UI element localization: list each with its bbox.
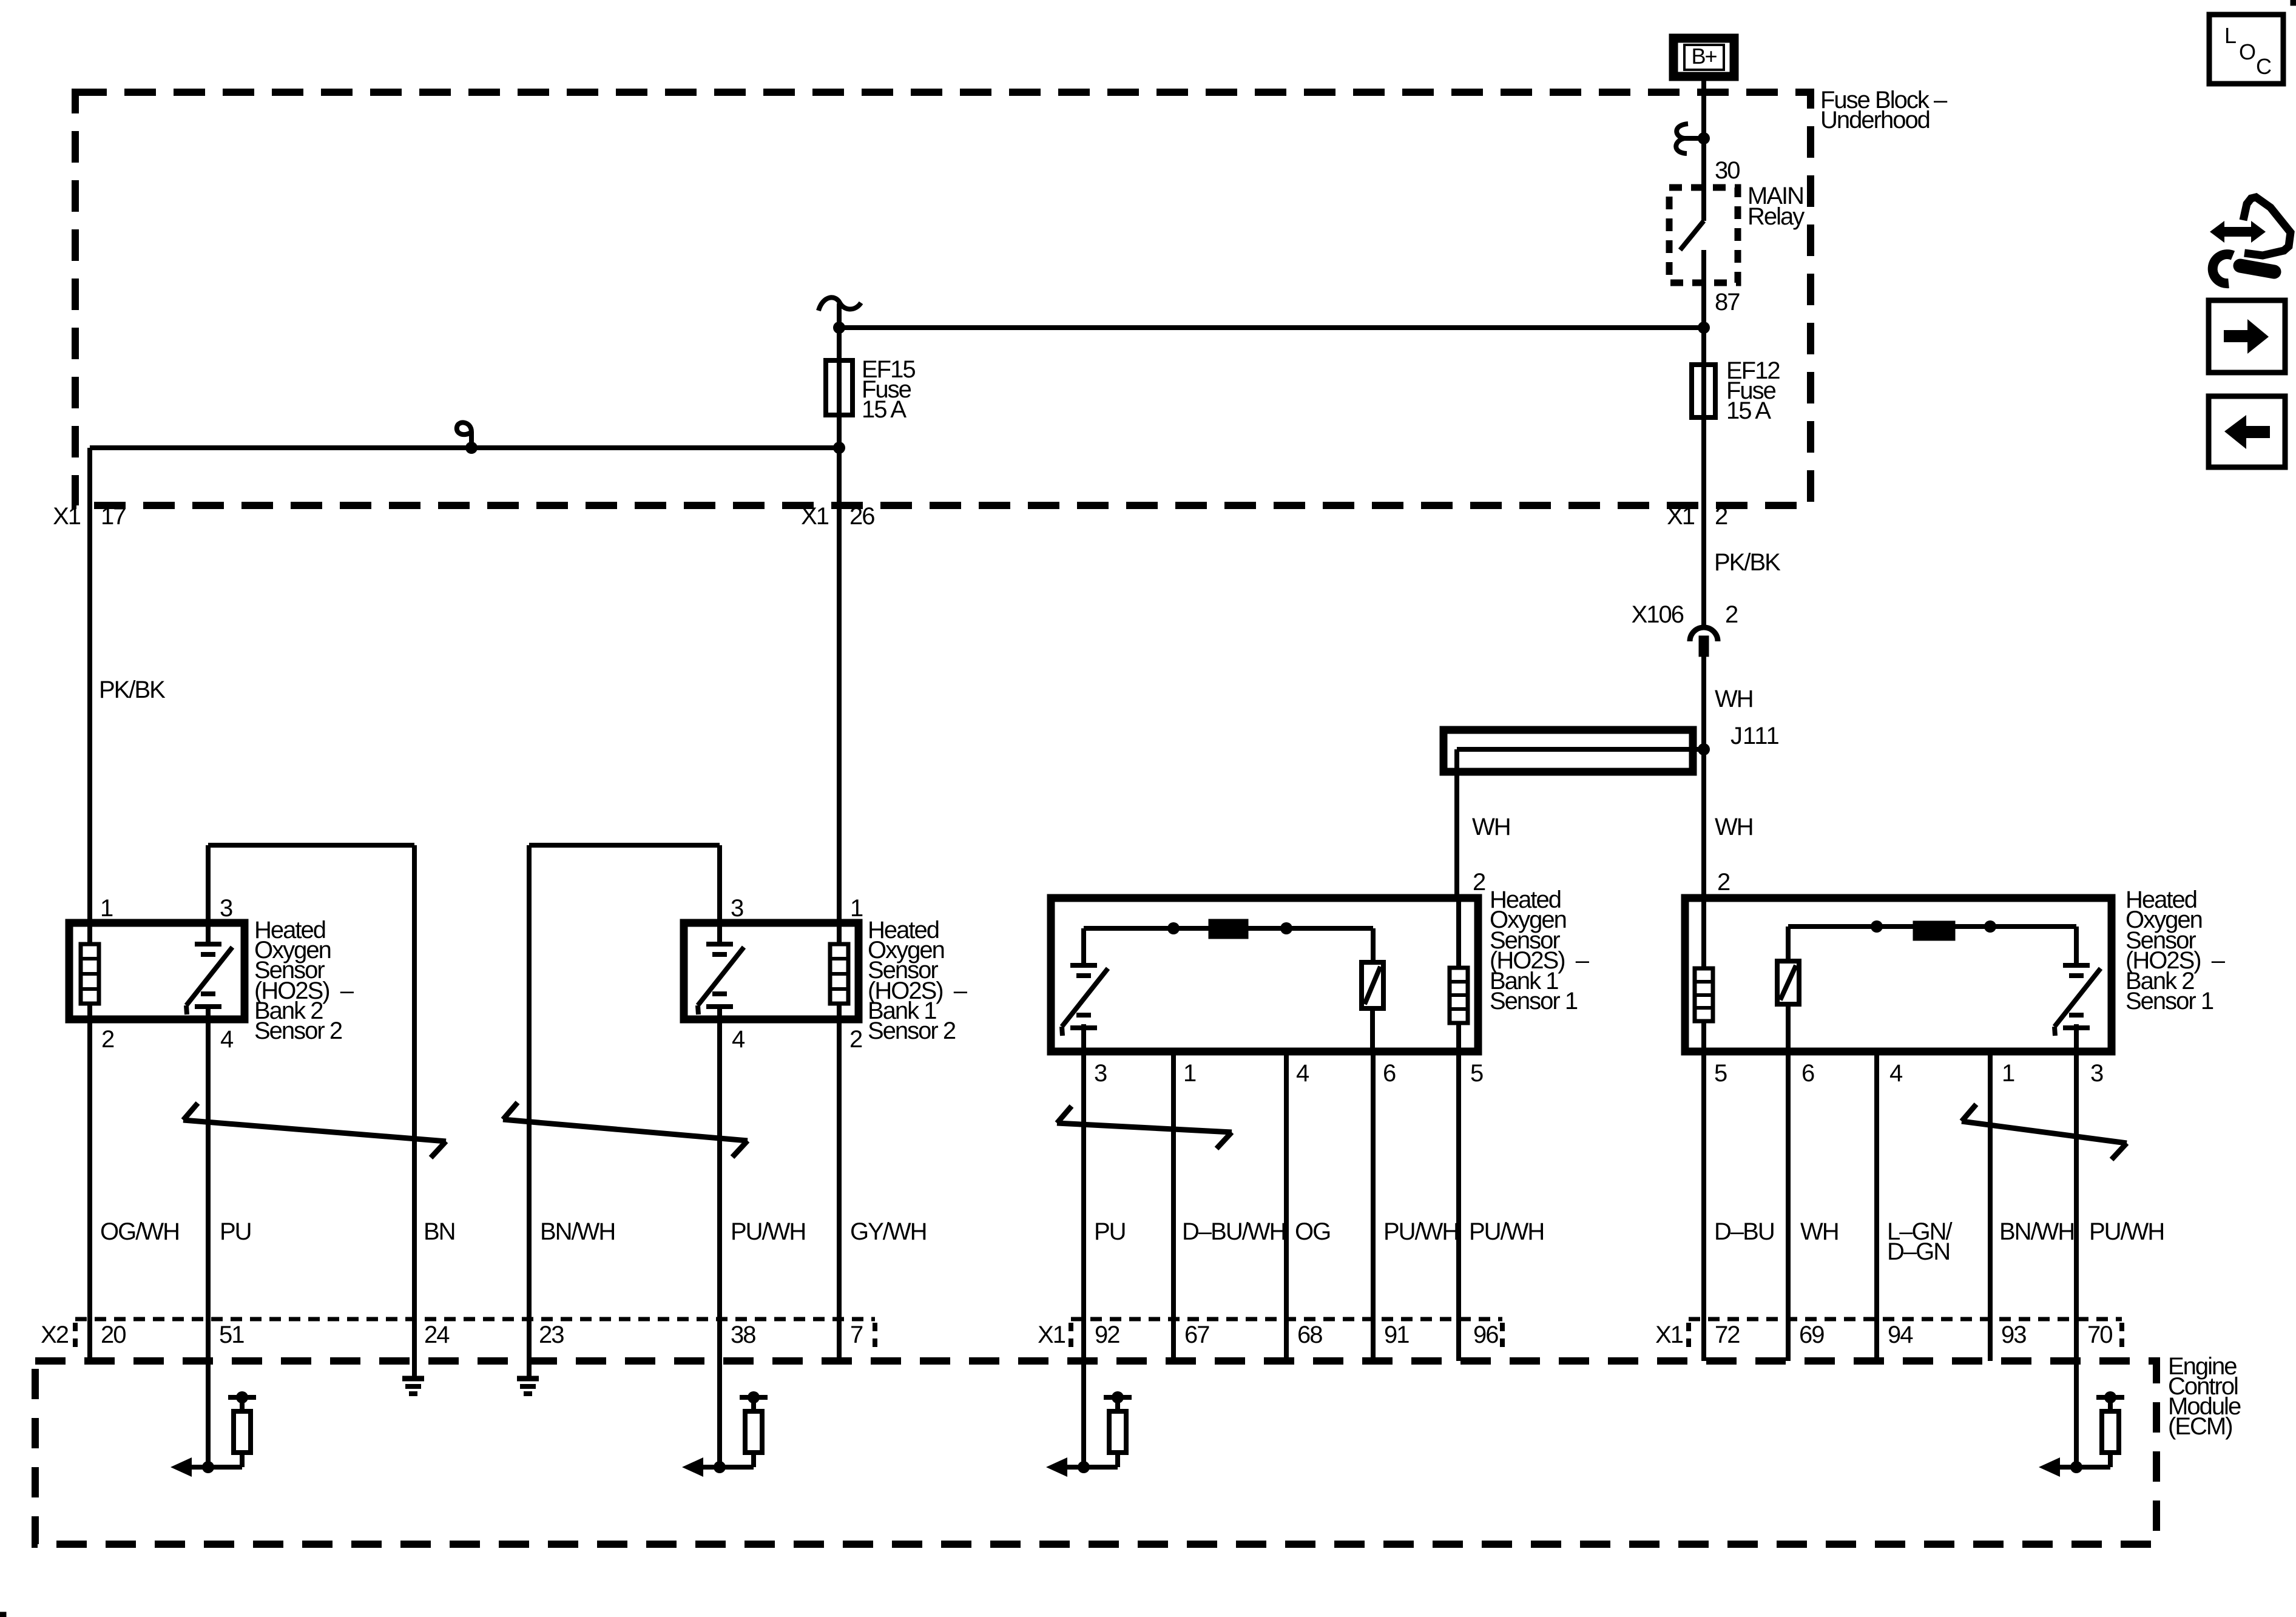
wire EF15 to X1-26 [837, 340, 842, 927]
svg-text:3: 3 [220, 895, 232, 922]
label X2 [41, 1322, 69, 1348]
pin 4 label B1S2 [732, 1026, 745, 1053]
svg-text:68: 68 [1297, 1322, 1322, 1348]
wire left feed down X1-17 [87, 448, 92, 927]
heater element B1S1 [1450, 898, 1468, 1055]
label 2 left branch [1473, 869, 1485, 896]
svg-text:51: 51 [219, 1322, 244, 1348]
svg-text:3: 3 [1094, 1060, 1107, 1087]
svg-text:X1: X1 [1655, 1322, 1683, 1348]
wire B1S1 pin3 to ECM 92 [1081, 1055, 1086, 1467]
label WH above J111 [1715, 686, 1753, 712]
wire B2S2 pin4 to ECM 51 [206, 1019, 211, 1467]
svg-text:6: 6 [1383, 1060, 1396, 1087]
label 87 [1715, 289, 1740, 316]
svg-text:72: 72 [1715, 1322, 1740, 1348]
label PK/BK right [1714, 549, 1781, 576]
splice crimp above EF15 [819, 297, 861, 311]
label WH left branch [1472, 814, 1510, 840]
svg-text:5: 5 [1714, 1060, 1727, 1087]
label PU/WH pin70 [2089, 1218, 2164, 1245]
svg-text:93: 93 [2001, 1322, 2026, 1348]
ECM pin numbers [101, 1322, 2112, 1348]
label PU/WH pin38 [731, 1218, 805, 1245]
battery feed B+ box [1673, 38, 1734, 76]
pin 1 label B2S2 [100, 895, 113, 922]
wire B2S1 pin4 to ECM 94 [1874, 1055, 1879, 1361]
pullup network pin 70 [2039, 1391, 2124, 1477]
svg-text:24: 24 [424, 1322, 450, 1348]
svg-text:20: 20 [101, 1322, 126, 1348]
label PU/WH pin91 [1383, 1218, 1458, 1245]
prev page arrow box [2209, 396, 2285, 467]
svg-text:69: 69 [1799, 1322, 1824, 1348]
HO2S Bank 1 Sensor 2 box [684, 923, 859, 1019]
ground at ECM 24 [402, 1379, 424, 1394]
relay contact pin 30 side [1701, 187, 1706, 221]
svg-text:26: 26 [849, 503, 874, 530]
page corner mark bottom left [0, 1612, 6, 1617]
svg-text:PU/WH: PU/WH [1469, 1218, 1544, 1245]
pin 3 label B1S2 [731, 895, 743, 922]
label PU pin51 [220, 1218, 251, 1245]
pin 5 label B2S1 [1714, 1060, 1727, 1087]
svg-text:GY/WH: GY/WH [850, 1218, 927, 1245]
label EF12 Fuse 15 A [1726, 357, 1780, 424]
wire X106 to J111 [1701, 657, 1706, 894]
heater element B1S2 [830, 923, 848, 1024]
connector X106 [1690, 627, 1718, 657]
label OG [1295, 1218, 1330, 1245]
svg-text:94: 94 [1888, 1322, 1913, 1348]
svg-text:23: 23 [539, 1322, 564, 1348]
svg-text:BN/WH: BN/WH [1999, 1218, 2074, 1245]
svg-text:1: 1 [850, 895, 863, 922]
pin 6 label B2S1 [1801, 1060, 1814, 1087]
svg-text:BN: BN [424, 1218, 455, 1245]
svg-text:3: 3 [731, 895, 743, 922]
svg-text:OG/WH: OG/WH [100, 1218, 179, 1245]
wire splice to relay pin 30 [1701, 138, 1706, 187]
svg-text:Underhood: Underhood [1820, 107, 1930, 133]
label X1 right [1655, 1322, 1683, 1348]
pin X1 26 [801, 503, 874, 530]
zener B1S1 [1362, 962, 1383, 1055]
svg-text:Sensor 1: Sensor 1 [2125, 988, 2213, 1014]
svg-text:67: 67 [1184, 1322, 1209, 1348]
pin 3 label B2S1 [2090, 1060, 2103, 1087]
wire B1S2 pin4 to ECM 38 [717, 1019, 722, 1467]
pin 6 label B1S1 [1383, 1060, 1396, 1087]
svg-text:Sensor 1: Sensor 1 [1490, 988, 1578, 1014]
label Fuse Block - Underhood [1820, 87, 1948, 133]
wire HO2S B2S2 pin3 loop [208, 845, 414, 1377]
label 2 right branch [1717, 869, 1730, 896]
page corner mark top right [2291, 0, 2296, 5]
label Engine Control Module ECM [2168, 1353, 2241, 1440]
svg-text:2: 2 [1717, 869, 1730, 896]
splice pack J111 box [1443, 730, 1693, 772]
svg-text:WH: WH [1472, 814, 1510, 840]
pin X1 2 [1667, 503, 1727, 530]
label HO2S Bank 2 Sensor 1 [2125, 886, 2226, 1014]
junction pin1 B1S1 [1167, 922, 1180, 934]
wire B2S1 pin1 to ECM 93 [1988, 1055, 1993, 1361]
label EF15 Fuse 15 A [862, 356, 915, 423]
svg-text:6: 6 [1801, 1060, 1814, 1087]
svg-text:X1: X1 [53, 503, 81, 530]
junction node at EF12 top [1698, 322, 1710, 334]
svg-text:91: 91 [1384, 1322, 1409, 1348]
svg-text:38: 38 [731, 1322, 755, 1348]
wire J111 left branch [1454, 749, 1459, 898]
connector row dotted X1 right [1689, 1317, 2122, 1322]
wire B1S1 pin5 to ECM 96 [1456, 1055, 1461, 1361]
svg-text:30: 30 [1715, 157, 1740, 184]
wire B+ to splice [1701, 81, 1706, 141]
svg-text:70: 70 [2087, 1322, 2112, 1348]
svg-text:WH: WH [1715, 814, 1753, 840]
svg-text:2: 2 [1715, 503, 1727, 530]
svg-text:2: 2 [849, 1026, 862, 1053]
label OG/WH [100, 1218, 179, 1245]
label BN/WH pin93 [1999, 1218, 2074, 1245]
label HO2S Bank 1 Sensor 1 [1490, 886, 1590, 1014]
svg-text:PU/WH: PU/WH [2089, 1218, 2164, 1245]
label HO2S Bank 1 Sensor 2 [868, 917, 968, 1044]
junction node in J111 [1698, 743, 1710, 755]
wire B2S1 pin5 to ECM 72 [1701, 1055, 1706, 1361]
svg-text:PU/WH: PU/WH [1383, 1218, 1458, 1245]
pin 3 label B1S1 [1094, 1060, 1107, 1087]
svg-text:PK/BK: PK/BK [1714, 549, 1781, 576]
pin 4 label B2S1 [1889, 1060, 1903, 1087]
svg-text:J111: J111 [1730, 723, 1780, 749]
pin 4 label B2S2 [220, 1026, 234, 1053]
heater element B2S2 [81, 923, 99, 1024]
label WH right branch [1715, 814, 1753, 840]
HO2S Bank 1 Sensor 1 box [1051, 898, 1478, 1052]
fuse EF15 [826, 360, 853, 415]
junction pin4 B2S1 [1871, 920, 1883, 933]
svg-text:92: 92 [1095, 1322, 1119, 1348]
label HO2S Bank 2 Sensor 2 [254, 917, 354, 1044]
pin 1 label B2S1 [2002, 1060, 2014, 1087]
twisted pair B1S1 [1057, 1106, 1232, 1149]
fuse EF12 [1692, 365, 1715, 417]
svg-text:7: 7 [850, 1322, 863, 1348]
wire J111 internal [1457, 747, 1704, 752]
svg-text:17: 17 [101, 503, 126, 530]
pin 2 label B2S2 [101, 1026, 114, 1053]
wire EF12 down to X106 [1701, 331, 1706, 627]
internal bus B1S1 [1084, 928, 1373, 965]
label PU pin92 [1094, 1218, 1126, 1245]
svg-text:X1: X1 [801, 503, 829, 530]
connector row dotted X1 mid [1071, 1317, 1502, 1322]
splice crimp on left feed [457, 422, 478, 454]
splice crimp under B+ [1676, 124, 1710, 154]
label X106 2 [1632, 601, 1738, 628]
label L-GN/D-GN [1887, 1218, 1953, 1265]
svg-text:B+: B+ [1691, 44, 1717, 69]
svg-text:D–BU/WH: D–BU/WH [1182, 1218, 1285, 1245]
wire WH into B1S1 pin2 [0, 0, 1, 1]
label 30 [1715, 157, 1740, 184]
twisted pair B2S2 [183, 1103, 446, 1158]
internal bus B2S1 [1788, 927, 2076, 965]
svg-text:Sensor 2: Sensor 2 [868, 1018, 956, 1044]
svg-text:87: 87 [1715, 289, 1740, 316]
svg-text:1: 1 [1183, 1060, 1196, 1087]
wire B2S1 pin6 to ECM 69 [1786, 1055, 1791, 1361]
label J111 [1730, 723, 1780, 749]
junction node at EF15 top [833, 322, 845, 334]
label MAIN Relay [1747, 183, 1805, 230]
label PK/BK left [99, 677, 166, 703]
twisted pair B2S1 [1962, 1104, 2127, 1160]
LOC nav box [2209, 15, 2283, 84]
label D-BU [1714, 1218, 1774, 1245]
pin 3 label B2S2 [220, 895, 232, 922]
label D-BU/WH [1182, 1218, 1285, 1245]
svg-text:2: 2 [1725, 601, 1738, 628]
fuse block - underhood dashed border [75, 92, 1811, 505]
pullup network pin 51 [171, 1391, 256, 1477]
junction node left feed [833, 442, 845, 454]
label X1 mid [1038, 1322, 1065, 1348]
svg-text:(ECM): (ECM) [2168, 1413, 2232, 1440]
svg-text:PK/BK: PK/BK [99, 677, 166, 703]
wire crimp to fuse EF15 [837, 303, 842, 364]
svg-text:D–BU: D–BU [1714, 1218, 1774, 1245]
sensing cell B1S2 [698, 923, 744, 1024]
sensing cell B1S1 [1062, 965, 1108, 1055]
pullup network pin 38 [682, 1391, 768, 1477]
pin 1 label B1S1 [1183, 1060, 1196, 1087]
svg-text:Relay: Relay [1747, 203, 1805, 230]
svg-text:BN/WH: BN/WH [540, 1218, 615, 1245]
svg-text:PU: PU [220, 1218, 251, 1245]
HO2S Bank 2 Sensor 2 box [69, 923, 245, 1019]
svg-text:1: 1 [100, 895, 113, 922]
svg-text:5: 5 [1470, 1060, 1483, 1087]
HO2S Bank 2 Sensor 1 box [1685, 898, 2112, 1052]
svg-text:3: 3 [2090, 1060, 2103, 1087]
thermistor block B1S1 [1209, 919, 1248, 939]
pin 1 label B1S2 [850, 895, 863, 922]
pullup network pin 92 [1046, 1391, 1132, 1477]
next page arrow box [2209, 300, 2285, 373]
label PU/WH pin96 [1469, 1218, 1544, 1245]
wire B2S2 pin2 to ECM 20 [87, 1019, 92, 1361]
sensing cell B2S2 [186, 923, 232, 1024]
wire B1S1 pin6 to ECM 91 [1371, 1055, 1376, 1361]
svg-text:D–GN: D–GN [1887, 1238, 1950, 1265]
vehicle service icon [2210, 197, 2291, 283]
svg-text:X1: X1 [1038, 1322, 1065, 1348]
svg-text:2: 2 [1473, 869, 1485, 896]
pin 4 label B1S1 [1296, 1060, 1309, 1087]
relay switch blade [1680, 221, 1704, 250]
pin 2 label B1S2 [849, 1026, 862, 1053]
svg-text:C: C [2256, 54, 2271, 79]
ground at ECM 23 [517, 1379, 539, 1394]
svg-text:WH: WH [1800, 1218, 1838, 1245]
wire B1S1 pin1 to ECM 67 [1171, 1055, 1176, 1361]
svg-text:15 A: 15 A [1726, 397, 1771, 424]
svg-text:1: 1 [2002, 1060, 2014, 1087]
svg-text:2: 2 [101, 1026, 114, 1053]
connector row dotted X2 [75, 1317, 875, 1322]
svg-text:PU/WH: PU/WH [731, 1218, 805, 1245]
svg-text:X1: X1 [1667, 503, 1695, 530]
svg-text:X2: X2 [41, 1322, 69, 1348]
ECM dashed border [35, 1361, 2156, 1544]
wire junction to EF15 branch [839, 325, 1704, 330]
pin X1 17 [53, 503, 126, 530]
MAIN relay dashed box [1669, 187, 1738, 283]
heater element B2S1 [1695, 894, 1713, 1055]
svg-text:4: 4 [1889, 1060, 1903, 1087]
svg-text:Sensor 2: Sensor 2 [254, 1018, 342, 1044]
svg-text:WH: WH [1715, 686, 1753, 712]
svg-text:4: 4 [732, 1026, 745, 1053]
wire HO2S B1S2 pin3 loop [529, 845, 720, 1377]
label BN/WH [540, 1218, 615, 1245]
label WH pin69 [1800, 1218, 1838, 1245]
wire B1S2 pin2 to ECM 7 [837, 1019, 842, 1361]
thermistor block B2S1 [1913, 921, 1955, 940]
svg-text:X106: X106 [1632, 601, 1684, 628]
relay contact pin 87 side [1701, 250, 1706, 283]
label BN [424, 1218, 455, 1245]
svg-text:4: 4 [220, 1026, 234, 1053]
zener B2S1 [1777, 961, 1799, 1055]
wire B2S1 pin3 to ECM 70 [2074, 1055, 2079, 1467]
svg-text:15 A: 15 A [862, 396, 907, 423]
label GY/WH [850, 1218, 927, 1245]
connector separators [75, 1323, 2122, 1354]
junction pin4 B1S1 [1280, 922, 1292, 934]
wire B1S1 pin4 to ECM 68 [1284, 1055, 1289, 1361]
twisted pair B1S2 [503, 1102, 748, 1157]
svg-text:PU: PU [1094, 1218, 1126, 1245]
pin 5 label B1S1 [1470, 1060, 1483, 1087]
sensing cell B2S1 [2055, 965, 2101, 1055]
svg-text:96: 96 [1473, 1322, 1498, 1348]
junction pin1 B2S1 [1984, 920, 1996, 933]
svg-text:4: 4 [1296, 1060, 1309, 1087]
wire relay 87 to EF12 junction [1701, 283, 1706, 328]
svg-text:OG: OG [1295, 1218, 1330, 1245]
svg-text:O: O [2239, 39, 2255, 64]
svg-text:L: L [2224, 23, 2236, 48]
wire left feed horizontal [90, 445, 839, 450]
